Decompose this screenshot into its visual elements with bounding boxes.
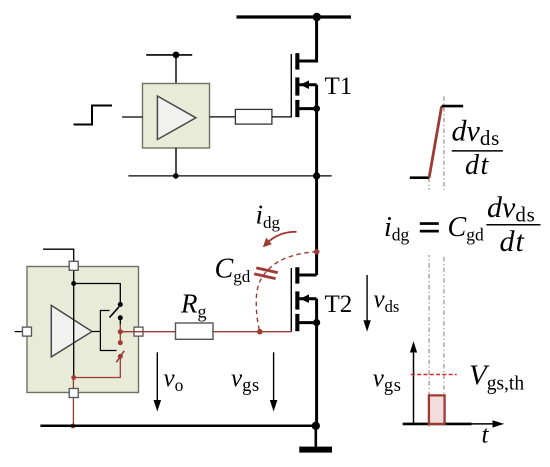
terminal squares U2 — [69, 261, 78, 270]
dashed wire: C_gd path — [256, 252, 316, 332]
wire: U2 internal supply — [73, 270, 75, 377]
wire: supply to U1 — [175, 55, 177, 84]
mask behind equation — [380, 190, 545, 255]
v_gs arrow — [273, 352, 275, 404]
v_ds step waveform high — [442, 105, 464, 108]
switch blade upper — [110, 307, 120, 318]
current arrow i_dg — [267, 232, 297, 243]
ground — [314, 426, 317, 447]
v_gs pulse — [429, 395, 445, 424]
wire: U2 input stub (top) — [43, 249, 74, 261]
node: bottom rail red dot — [71, 424, 76, 429]
switch linkage bracket — [100, 311, 116, 351]
v_gs plot x-axis — [403, 423, 497, 425]
node: output (red) — [118, 329, 123, 334]
svg-text:T1: T1 — [325, 73, 353, 100]
wire: T2 source to bottom rail — [315, 323, 318, 426]
svg-text:dt: dt — [500, 225, 525, 258]
svg-text:t: t — [482, 422, 490, 449]
wire: U2 ground to bottom rail (red) — [72, 378, 74, 426]
wire: T1 source down to T2 drain — [315, 109, 318, 275]
wire: resistor to T1 gate — [272, 116, 292, 118]
top supply rail — [237, 15, 352, 18]
wire: U2 input stub (left) — [15, 331, 23, 333]
node: internal ground (red) — [71, 375, 76, 380]
node: U1 ground — [173, 173, 179, 179]
gate driver U1 — [143, 84, 210, 149]
transistor T1 — [291, 53, 316, 117]
input step symbol — [74, 106, 113, 125]
dash-dot time marker t1 — [428, 178, 430, 427]
node: gate node (red) — [257, 329, 263, 335]
capacitor C_gd plates — [254, 266, 278, 280]
node: T2 source junction — [313, 319, 320, 326]
svg-text:dt: dt — [465, 150, 490, 181]
switch blade lower (red) — [116, 351, 124, 363]
resistor (T1 gate) — [235, 109, 272, 124]
node: mid rail junction — [313, 172, 320, 179]
v_gs baseline thick — [403, 423, 472, 426]
node: ground junction — [312, 422, 320, 430]
node: C_gd drain tap (red) — [314, 249, 320, 255]
bottom rail — [40, 425, 316, 428]
gate driver U2 (bottom left) — [27, 267, 139, 393]
node: top rail / drain junction — [313, 13, 321, 21]
node: internal supply junction — [71, 281, 76, 286]
wire: U2 output to switch linkage — [92, 331, 100, 333]
resistor R_g — [176, 323, 214, 339]
V_gs,th dashed level (red) — [411, 374, 457, 376]
node: T1 source junction — [313, 105, 320, 112]
v_ds step waveform low — [410, 176, 429, 179]
v_o arrow — [156, 352, 158, 404]
node: U1 supply — [173, 52, 180, 59]
mid rail (phase node) — [128, 175, 331, 177]
v_ds arrow — [366, 275, 368, 325]
switch contacts upper — [118, 302, 123, 307]
wire: lower switch to internal ground — [74, 356, 121, 377]
wire: switch mid node — [119, 318, 121, 325]
switch contacts lower (red) — [118, 340, 123, 345]
svg-text:T2: T2 — [325, 291, 353, 318]
wire: supply to switch top — [74, 284, 121, 305]
equation i_dg = C_gd dv_ds/dt — [384, 191, 541, 258]
wire: R_g to gate node (red) — [213, 331, 260, 333]
dash-dot time marker t2 — [443, 96, 445, 426]
gate driver U1 supply bar — [146, 54, 192, 56]
wire: U1 output to resistor — [210, 116, 236, 118]
wire: U2 output (red) to R_g — [120, 331, 175, 333]
wire: U1 to mid rail — [175, 148, 177, 176]
wire: gate node to T2 gate (red) — [260, 331, 292, 333]
v_gs plot y-axis — [413, 348, 415, 425]
v_ds slope (red) — [429, 106, 442, 177]
transistor T2 — [291, 267, 316, 332]
wire: step to U1 input — [122, 116, 143, 118]
label dv_ds/dt (upper fraction) — [452, 115, 503, 182]
wire: top rail to T1 drain — [299, 17, 316, 61]
